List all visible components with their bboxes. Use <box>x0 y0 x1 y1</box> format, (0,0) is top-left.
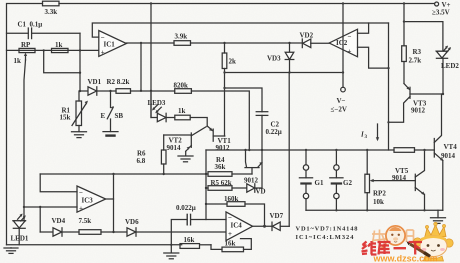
switch SB and battery E <box>110 91 112 108</box>
wire IC3 plus input <box>24 206 77 208</box>
svg-text:LED1: LED1 <box>11 235 29 243</box>
svg-text:≥3.5V: ≥3.5V <box>432 9 450 17</box>
wire IC4 output <box>253 225 272 227</box>
svg-text:9014: 9014 <box>167 144 182 152</box>
wire main input <box>7 49 100 51</box>
LED LED1 <box>13 220 26 222</box>
wire 2k stub <box>224 43 226 53</box>
resistor 7.5k <box>79 230 101 235</box>
svg-text:15k: 15k <box>60 114 71 122</box>
wire IC4 minus input with cap <box>171 220 226 245</box>
SECTION_TEXT <box>372 222 453 261</box>
svg-text:2k: 2k <box>229 58 237 66</box>
RP wiper arrow <box>25 55 27 61</box>
capacitor C2 <box>225 88 263 112</box>
resistor 820k <box>175 89 192 94</box>
op-amp IC2 <box>329 29 357 57</box>
transistor VT1 9012 <box>207 126 212 131</box>
svg-text:G1: G1 <box>315 179 324 187</box>
op-amp IC3 <box>77 186 106 212</box>
ground under x171 <box>170 244 172 246</box>
diode VD1 <box>88 87 97 95</box>
diode VD7 <box>271 222 273 230</box>
transistor VT3 9012 <box>404 84 409 90</box>
transistor VT5 9014 <box>414 174 416 190</box>
node x388 plus <box>387 67 389 69</box>
resistor 160k <box>206 203 227 205</box>
svg-text:VD2: VD2 <box>300 32 314 40</box>
svg-text:9014: 9014 <box>392 174 407 182</box>
transistor VT2 9014 <box>164 134 192 136</box>
diode VD4 <box>40 231 53 233</box>
svg-text:36k: 36k <box>215 163 226 171</box>
wire VD7 riser x289 <box>288 73 290 227</box>
svg-text:IC2: IC2 <box>336 39 348 47</box>
transistor VT4 9014 <box>433 139 435 158</box>
svg-text:≤−2V: ≤−2V <box>331 106 347 114</box>
svg-text:−: − <box>348 33 352 41</box>
annotation I3 arrow <box>377 124 379 139</box>
svg-text:1k: 1k <box>14 57 22 65</box>
ground left end <box>10 247 12 249</box>
svg-text:VD: VD <box>256 188 266 196</box>
wire IC2 minus loop <box>358 23 369 33</box>
LED LED2 <box>404 22 443 52</box>
diode VD2 <box>301 39 303 48</box>
node Vminus top <box>342 2 344 4</box>
svg-text:−: − <box>79 189 83 197</box>
node VD3 top <box>288 42 290 44</box>
svg-text:9012: 9012 <box>411 107 426 115</box>
resistor rail unnamed <box>394 148 415 153</box>
wire IC3 minus feedback <box>40 174 77 192</box>
wire 820k right to drop x249 <box>191 91 249 150</box>
watermark mascot ears <box>413 238 421 246</box>
wire bottom-right rail y210 <box>306 209 443 211</box>
battery G2 <box>335 150 337 165</box>
svg-text:G2: G2 <box>343 179 352 187</box>
svg-text:VD1~VD7:1N4148: VD1~VD7:1N4148 <box>296 226 359 233</box>
resistor 16k left <box>180 244 200 249</box>
svg-text:+: + <box>348 48 352 56</box>
svg-text:www.dzsc.com: www.dzsc.com <box>373 254 438 263</box>
watermark mascot body <box>424 256 444 261</box>
wire wiper down to LED1 <box>24 60 26 221</box>
svg-text:1k: 1k <box>55 41 63 49</box>
svg-text:R3: R3 <box>413 48 422 56</box>
resistor R5 62k <box>208 186 232 191</box>
capacitor C1 <box>7 32 29 34</box>
watermark seal circle <box>386 226 405 245</box>
svg-text:820k: 820k <box>174 82 189 90</box>
svg-text:R5 62k: R5 62k <box>211 179 232 187</box>
diode VD mid <box>247 184 255 192</box>
svg-text:IC3: IC3 <box>82 197 94 205</box>
battery G1 <box>305 150 307 165</box>
svg-text:VD6: VD6 <box>125 218 139 226</box>
wire VD4 riser <box>39 207 41 232</box>
svg-text:2.7k: 2.7k <box>409 57 422 65</box>
node main-C1drop <box>79 49 81 51</box>
svg-text:+: + <box>79 205 83 213</box>
svg-text:LED3: LED3 <box>148 99 166 107</box>
wire IC2 plus loop <box>358 47 389 68</box>
watermark pen <box>410 244 429 256</box>
svg-text:R2 8.2k: R2 8.2k <box>107 78 130 86</box>
svg-text:16k: 16k <box>225 239 236 247</box>
node dropper-right <box>79 72 81 74</box>
svg-text:+: + <box>101 49 105 57</box>
wire 1k to VT1 emitter <box>190 118 207 127</box>
wire y174 long from IC3 <box>40 173 208 175</box>
wire bottom rail <box>7 244 182 246</box>
resistor R2 8.2k <box>116 89 131 94</box>
watermark magnifier handle <box>381 244 387 250</box>
wire output to IC2 <box>191 42 303 44</box>
svg-text:10k: 10k <box>373 198 384 206</box>
ground right <box>437 210 439 217</box>
node main-dropper <box>43 49 45 51</box>
node C2 rail <box>261 149 263 151</box>
rheostat R1 15k <box>78 91 80 101</box>
resistor 3.9k <box>174 41 191 46</box>
svg-text:VT4: VT4 <box>444 143 458 151</box>
wire feedback rail y23 <box>92 23 388 37</box>
svg-text:V−: V− <box>337 97 346 105</box>
wire 2k bottom column to VT1 <box>224 69 226 137</box>
resistor R6 6.8 <box>163 135 165 150</box>
battery E under SB <box>103 131 118 133</box>
capacitor 0.022u <box>186 214 188 224</box>
svg-text:VD3: VD3 <box>267 55 281 63</box>
resistor 1k top <box>52 48 69 52</box>
svg-text:VD7: VD7 <box>270 212 284 220</box>
diode VD6 <box>127 228 136 236</box>
wire riser x206 <box>205 150 207 220</box>
wire IC1 output <box>126 42 174 44</box>
watermark mascot face <box>420 236 447 257</box>
resistor R4 36k <box>208 172 232 177</box>
svg-text:LED2: LED2 <box>441 62 459 70</box>
resistor 2k <box>222 53 227 69</box>
svg-text:1k: 1k <box>178 107 186 115</box>
svg-text:6.8: 6.8 <box>137 157 146 165</box>
svg-text:9012: 9012 <box>244 177 259 185</box>
svg-text:0.022μ: 0.022μ <box>176 204 196 212</box>
svg-text:9014: 9014 <box>441 152 456 160</box>
wire top V+ rail <box>7 4 43 245</box>
ground under VT2 <box>178 155 193 157</box>
resistor 16k right <box>211 245 222 250</box>
wire right vertical x388 <box>388 23 390 150</box>
svg-text:IC1~IC4:LM324: IC1~IC4:LM324 <box>296 234 355 241</box>
wire column x80 down <box>79 50 81 91</box>
svg-text:0.22μ: 0.22μ <box>266 128 282 136</box>
svg-text:RP2: RP2 <box>373 190 386 198</box>
svg-text:VD1: VD1 <box>88 78 102 86</box>
terminal V- <box>341 87 346 92</box>
node VD3 bottom <box>288 71 290 73</box>
node 2k top <box>223 42 225 44</box>
op-amp IC1 <box>99 31 127 57</box>
svg-text:C1 0.1μ: C1 0.1μ <box>18 21 43 29</box>
potentiometer RP2 10k <box>366 150 368 174</box>
potentiometer RP <box>19 48 35 52</box>
ground under R1 <box>72 131 87 133</box>
node y72.5 right <box>342 71 344 73</box>
svg-text:IC4: IC4 <box>231 222 243 230</box>
node SB top <box>109 90 111 92</box>
node 820k drop on rail <box>244 149 246 151</box>
node y72.5 left <box>223 71 225 73</box>
svg-text:9012: 9012 <box>216 144 231 152</box>
svg-text:VD4: VD4 <box>52 217 66 225</box>
svg-text:160k: 160k <box>224 195 239 203</box>
resistor 3.3k <box>43 1 60 6</box>
resistor 1k mid <box>175 115 190 120</box>
watermark ghost char <box>372 230 414 245</box>
watermark mascot crown <box>425 225 447 239</box>
LED3 drop <box>151 91 157 118</box>
wire C1 drop <box>79 33 81 50</box>
wire Vminus column <box>342 4 344 88</box>
wire left col x151 <box>150 4 152 118</box>
svg-text:3.3k: 3.3k <box>45 8 58 16</box>
svg-text:E: E <box>101 112 106 120</box>
svg-text:−: − <box>101 34 105 42</box>
op-amp IC4 <box>226 212 253 241</box>
svg-text:+: + <box>228 230 232 238</box>
diode VD3 <box>289 43 291 52</box>
terminal V+ <box>435 2 439 6</box>
LED LED3 <box>157 113 166 121</box>
wire IC3 output riser <box>106 174 114 199</box>
svg-text:SB: SB <box>115 112 124 120</box>
resistor R3 2.7k <box>403 4 405 46</box>
wire y72.5 VD3 bottom rail <box>225 72 344 74</box>
transistor 9012 mid (up) <box>245 167 259 169</box>
wire dropper between RP and 1k <box>44 50 80 72</box>
svg-text:RP: RP <box>21 41 31 49</box>
svg-text:3.9k: 3.9k <box>175 33 188 41</box>
watermark red text wei ku yi xia <box>362 241 423 255</box>
svg-text:IC1: IC1 <box>104 41 116 49</box>
svg-text:16k: 16k <box>184 236 195 244</box>
wire left col x141 <box>140 43 142 91</box>
svg-text:7.5k: 7.5k <box>79 217 92 225</box>
svg-text:−: − <box>228 214 232 222</box>
wire VD1 R2 820k row y91 <box>80 90 88 92</box>
svg-text:I: I <box>360 131 364 139</box>
wire mid rail y150 <box>206 149 394 151</box>
